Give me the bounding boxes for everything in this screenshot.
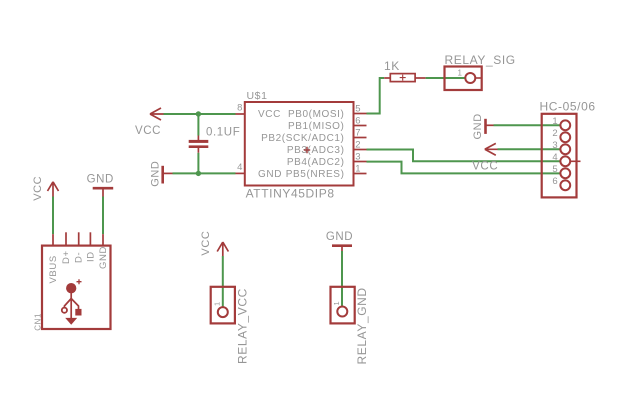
svg-text:D+: D+ <box>61 250 72 264</box>
svg-text:ID: ID <box>85 251 96 262</box>
svg-text:3: 3 <box>355 152 361 163</box>
svg-text:7: 7 <box>355 128 361 139</box>
svg-text:PB0(MOSI): PB0(MOSI) <box>288 109 345 120</box>
svg-text:PB5(NRES): PB5(NRES) <box>286 169 345 180</box>
svg-text:6: 6 <box>552 176 558 187</box>
USB icon in CN1 <box>62 279 82 324</box>
wire GND to CN1 GND <box>102 197 104 235</box>
svg-text:2: 2 <box>552 128 558 139</box>
wire GND row to U$1 pin 4 <box>173 172 236 174</box>
IC origin cross marker <box>304 147 310 153</box>
HC pad 4 stub <box>570 160 580 162</box>
svg-text:5: 5 <box>552 164 558 175</box>
HC pad 1 <box>560 120 570 130</box>
net VCC symbol (above CN1) <box>48 182 59 197</box>
HC pad 3 <box>560 144 570 154</box>
svg-text:GND: GND <box>98 246 109 269</box>
svg-text:PB3(ADC3): PB3(ADC3) <box>287 145 345 156</box>
svg-text:HC-05/06: HC-05/06 <box>540 100 596 114</box>
svg-text:VCC: VCC <box>258 109 281 120</box>
connector RELAY_SIG <box>445 67 482 91</box>
HC pad 5 <box>560 168 570 178</box>
svg-text:VCC: VCC <box>32 176 44 201</box>
junction GND/C1 <box>196 171 201 176</box>
svg-text:1: 1 <box>213 301 222 306</box>
svg-text:1: 1 <box>355 164 361 175</box>
net VCC symbol (HC pin3) <box>485 143 498 155</box>
net VCC symbol (above RELAY_VCC) <box>217 242 228 256</box>
svg-text:GND: GND <box>87 174 114 186</box>
ground symbol (above RELAY_GND) <box>332 246 352 251</box>
IC right pin stubs <box>354 114 367 174</box>
svg-text:0.1UF: 0.1UF <box>206 127 240 139</box>
svg-text:4: 4 <box>237 162 243 173</box>
op IC U$1 pin stubs left <box>236 114 246 173</box>
resistor R1 1K <box>384 74 425 82</box>
svg-text:3: 3 <box>552 140 558 151</box>
svg-text:1: 1 <box>332 301 341 306</box>
svg-text:1K: 1K <box>384 59 400 73</box>
wire GND to HC pin1 <box>494 124 561 126</box>
ground symbol (HC pin1) <box>486 119 494 134</box>
connector HC-05/06 body <box>542 114 577 198</box>
ground symbol (above CN1) <box>93 188 114 196</box>
IC U$1 body <box>245 102 354 186</box>
wire VCC to HC pin3 <box>498 148 561 150</box>
svg-text:ATTINY45DIP8: ATTINY45DIP8 <box>246 187 335 201</box>
wire VCC to CN1 VBUS <box>52 197 54 235</box>
svg-text:D-: D- <box>74 252 85 263</box>
wire GND to RELAY_GND pad <box>341 251 343 307</box>
HC pad 6 <box>560 180 570 190</box>
wire VCC to RELAY_VCC pad <box>222 256 224 307</box>
svg-text:PB2(SCK/ADC1): PB2(SCK/ADC1) <box>261 133 344 144</box>
svg-text:1: 1 <box>458 69 463 78</box>
ground symbol (left of U$1 pin 4) <box>163 166 173 184</box>
svg-text:4: 4 <box>552 152 558 163</box>
svg-text:VCC: VCC <box>200 231 212 256</box>
svg-text:5: 5 <box>355 104 361 115</box>
svg-text:U$1: U$1 <box>247 90 268 102</box>
svg-text:RELAY_VCC: RELAY_VCC <box>236 288 250 364</box>
svg-text:6: 6 <box>355 116 361 127</box>
svg-text:GND: GND <box>472 113 484 139</box>
svg-text:2: 2 <box>355 140 361 151</box>
svg-text:GND: GND <box>326 231 353 243</box>
HC pad 2 <box>560 132 570 142</box>
svg-text:RELAY_GND: RELAY_GND <box>355 287 369 364</box>
wire PB4 to HC pin5 <box>367 162 561 174</box>
svg-text:CN1: CN1 <box>34 313 43 331</box>
wire VCC row to U$1 pin 8 <box>164 113 236 115</box>
connector RELAY_VCC <box>211 287 235 324</box>
wire PB3 to HC pin4 <box>367 150 561 162</box>
capacitor C1 0.1UF <box>189 114 209 173</box>
HC pad 4 <box>560 156 570 166</box>
svg-text:VCC: VCC <box>135 125 161 137</box>
connector RELAY_GND <box>331 287 355 324</box>
svg-text:GND: GND <box>258 169 282 180</box>
junction VCC/C1 <box>196 111 201 116</box>
wire R1 to RELAY_SIG <box>426 77 466 79</box>
svg-text:GND: GND <box>150 161 162 187</box>
connector CN1 body <box>42 246 111 329</box>
svg-text:1: 1 <box>552 116 558 127</box>
svg-text:RELAY_SIG: RELAY_SIG <box>445 53 516 67</box>
wire PB0 to R1 <box>367 78 385 114</box>
svg-text:VCC: VCC <box>472 161 498 173</box>
CN1 pin stubs <box>53 232 103 245</box>
svg-text:8: 8 <box>237 103 243 114</box>
svg-text:VBUS: VBUS <box>48 255 59 283</box>
net VCC symbol (left of C1) <box>150 108 164 120</box>
svg-text:PB1(MISO): PB1(MISO) <box>288 121 345 132</box>
svg-text:PB4(ADC2): PB4(ADC2) <box>287 157 345 168</box>
